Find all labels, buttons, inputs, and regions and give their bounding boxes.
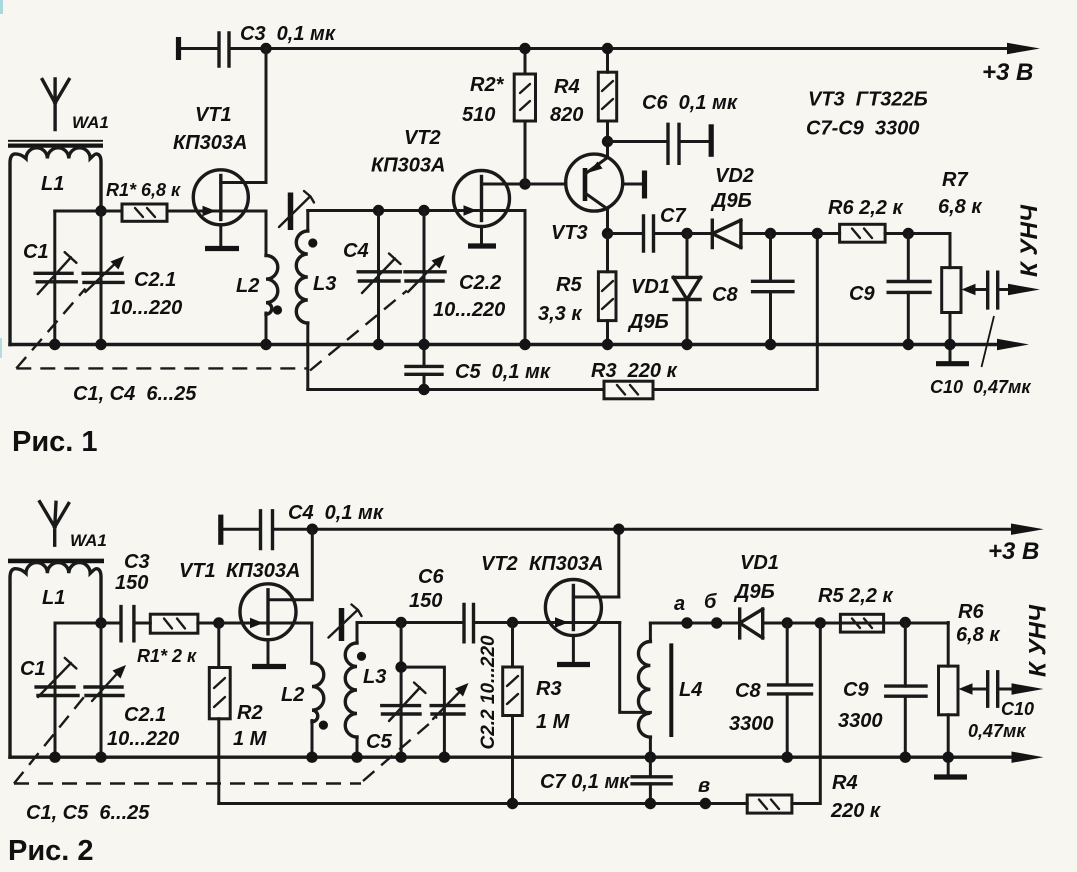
svg-text:820: 820 [550,104,583,126]
resistor R5 (sch2) [840,614,883,632]
svg-text:а: а [674,593,685,615]
svg-text:VT1: VT1 [179,560,216,582]
inductor L1 (sch2) [10,563,101,758]
svg-text:C3: C3 [124,551,150,573]
svg-text:C8: C8 [735,680,761,702]
svg-text:б: б [704,591,717,613]
svg-text:L1: L1 [42,587,65,609]
svg-text:L2: L2 [236,275,259,297]
svg-text:К УНЧ: К УНЧ [1025,604,1052,677]
node C7 right / VD1 [681,228,692,239]
diode VD1 (D9B) [686,234,689,345]
svg-text:510: 510 [462,104,495,126]
capacitor C4 (sch2) [261,511,273,549]
capacitor C1 plates [35,273,76,282]
svg-text:C7: C7 [660,205,686,227]
capacitor C9 [907,234,910,345]
svg-text:C9: C9 [843,679,869,701]
diode VD1 (sch2) [740,609,763,638]
wire: C1 top line [55,210,101,213]
capacitor C8 (sch2) [786,623,789,757]
AGC line (sch2) [219,802,747,805]
node: L1/C3/C2.1 (sch2) [95,617,106,628]
wire VT2 drain up to rail (sch2) [617,529,620,597]
transistor VT3 (GT322B PNP) [566,154,623,211]
transistor VT2 (KP303A FET) [454,171,510,227]
svg-text:Д9Б: Д9Б [627,311,669,333]
svg-text:R6 2,2 к: R6 2,2 к [828,197,903,219]
capacitor C10 (sch2) [988,672,998,706]
svg-text:L1: L1 [41,173,64,195]
capacitor C2.2 plates [405,272,445,281]
node C5 bottom [418,384,429,395]
svg-text:C1: C1 [20,658,46,680]
capacitor C2.1 plates [83,273,123,282]
node R2/VT1 gate (sch2) [213,617,224,628]
wire: C1 top line (sch2) [55,622,101,625]
svg-text:C1: C1 [23,241,49,263]
node R4 top rail [602,43,613,54]
svg-text:C4: C4 [343,240,369,262]
node R3/VT2 gate (sch2) [507,617,518,628]
node C8 top (sch2) [782,617,793,628]
gang dashed line (sch2) [14,692,88,784]
svg-text:R1* 2 к: R1* 2 к [137,646,197,666]
svg-text:КП303А: КП303А [226,560,301,582]
wire: node to R1 [101,210,122,213]
antenna WA1 (sch2) [40,502,69,546]
output arrow K UNCH [998,288,1022,291]
resistor R4 [598,72,616,121]
svg-text:К УНЧ: К УНЧ [1016,204,1043,277]
inductor L3 phase dot [308,238,317,247]
svg-text:КП303А: КП303А [529,553,604,575]
svg-text:КП303А: КП303А [371,155,446,177]
node R4/R5 (sch2) [815,617,826,628]
svg-text:КП303А: КП303А [173,132,248,154]
svg-text:10...220: 10...220 [110,297,182,319]
inductor L3 (sch2) [356,623,359,644]
detector line (sch2) [650,622,948,625]
capacitor C6 [608,140,710,143]
node: L1/R1/C2.1 [95,205,106,216]
svg-text:0,47мк: 0,47мк [968,721,1026,741]
+3V power rail (top, schematic 2) [221,528,1024,531]
node C7 bottom (sch2) [645,798,656,809]
svg-text:VD1: VD1 [631,276,670,298]
wire R6 to corner and R7 [885,234,950,268]
wire R2 node up [524,49,527,185]
svg-text:150: 150 [115,572,148,594]
node C5 bracket (sch2) [395,661,406,672]
wire R4 riser (sch2) [792,623,820,804]
svg-text:в: в [698,775,710,797]
svg-text:VT1: VT1 [195,104,232,126]
svg-text:C7 0,1 мк: C7 0,1 мк [540,771,630,793]
svg-text:R6: R6 [958,601,984,623]
transistor VT2 (sch2) [545,580,601,636]
svg-text:C6 0,1 мк: C6 0,1 мк [642,92,738,114]
svg-text:VT2: VT2 [404,127,441,149]
inductor L4 core bar [669,643,673,737]
node C8 top [765,228,776,239]
capacitor C2.1 wire [100,211,103,345]
node C9 top (sch2) [900,617,911,628]
wire VT2 source to L4 tap (sch2) [620,623,651,713]
svg-text:L3: L3 [363,666,386,688]
capacitor C2.2 gang arrow [408,261,439,293]
resistor R2 [514,74,535,121]
svg-text:+3 В: +3 В [982,59,1033,86]
capacitor C2.1 gang arrow (sch2) [92,672,119,702]
ground symbol below R6 (sch2) [947,757,950,774]
wire VT2 source to ground [524,211,527,345]
capacitor C2.1 wire (sch2) [100,623,103,757]
svg-text:VT3 ГТ322Б: VT3 ГТ322Б [808,89,928,111]
capacitor C9 (sch2) [904,623,907,758]
ground rail arrowhead [997,339,1029,350]
capacitor C1 (trimmer) wire [53,211,56,345]
gang dashed line (C2.1 to C2.2) [16,289,85,369]
svg-text:6,8 к: 6,8 к [956,624,1000,646]
svg-text:R5 2,2 к: R5 2,2 к [818,585,893,607]
inductor L3 phase dot (sch2) [357,652,366,661]
svg-text:L3: L3 [313,273,336,295]
svg-text:220 к: 220 к [830,800,881,822]
+3V rail arrowhead (sch2) [1011,524,1044,535]
svg-text:WA1: WA1 [70,531,107,550]
C10 label leader line [982,316,995,367]
node VT3 collector [602,228,613,239]
inductor L2 [266,256,278,315]
svg-text:C2.2 10...220: C2.2 10...220 [478,635,499,750]
wire node down to VT1 drain (sch2) [268,529,312,600]
svg-text:C5 0,1 мк: C5 0,1 мк [455,361,551,383]
transistor VT2 case bar [468,243,496,248]
svg-text:Д9Б: Д9Б [710,190,752,212]
capacitor C4 (trimmer) wire [377,211,380,345]
antenna coupling bar (sch2) [8,559,104,564]
capacitor C8 [769,234,772,345]
capacitor C5 plates [406,366,442,374]
+3V power rail (top, schematic 1) [179,47,1021,50]
node VT2 drain / R2 [519,178,530,189]
svg-text:1 М: 1 М [536,711,571,733]
svg-text:C5: C5 [366,731,392,753]
wire: VT1 source down to L2 [265,211,268,256]
svg-text:10...220: 10...220 [433,299,505,321]
capacitor C6 (sch2) [464,605,474,642]
transistor VT1 case bar (sch2) [252,664,286,669]
node a (sch2) [681,617,692,628]
capacitor C5 wire [423,345,426,390]
inductor L2 (sch2) [312,663,324,722]
node VT3 emitter / C6 [602,136,613,147]
svg-text:L2: L2 [281,684,304,706]
svg-text:R2: R2 [237,702,263,724]
lower line (L3 bottom / AGC return) [308,234,818,390]
svg-text:VT3: VT3 [551,222,588,244]
capacitor C6 terminal bar [709,124,714,157]
wire R1 to gate node (sch2) [198,622,219,625]
R6 wiper arrow from C10 (sch2) [971,688,986,691]
svg-text:R4: R4 [832,772,858,794]
R7 wiper arrow from C10 [974,288,986,291]
svg-text:Рис. 1: Рис. 1 [12,426,98,458]
capacitor C7 [608,232,688,235]
svg-text:VT2: VT2 [481,553,518,575]
node C9 top [903,228,914,239]
node v (sch2) [700,798,711,809]
capacitor C3 terminal bar [176,37,181,60]
capacitor C2.2 plates (sch2) [431,706,464,714]
capacitor C4 trimmer arrow [362,254,401,294]
node b (sch2) [711,617,722,628]
resistor R1 [122,204,167,221]
resistor R6 pot (sch2) [939,666,959,715]
inductor L4 (sch2) [649,623,652,642]
rail junction dots (sch2) [49,752,60,763]
output arrow K UNCH (sch2) [998,688,1026,691]
transistor VT1 (KP303A FET) [193,170,248,225]
ground rail (schematic 2) [10,756,1022,759]
svg-text:C9: C9 [849,283,875,305]
svg-text:Д9Б: Д9Б [733,581,775,603]
resistor R1 (sch2) [150,614,198,633]
node R2 top rail [519,43,530,54]
svg-text:C10 0,47мк: C10 0,47мк [930,377,1031,397]
wire: tank2 top line (sch2) [357,621,546,624]
node C4 top [373,205,384,216]
resistor R4 (sch2) [747,795,792,813]
rail junction dots [49,339,60,350]
svg-text:C1, C4 6...25: C1, C4 6...25 [73,383,197,405]
transistor VT1 case bar [205,246,239,251]
svg-text:VD1: VD1 [740,552,779,574]
svg-text:R4: R4 [554,76,580,98]
svg-text:10...220: 10...220 [107,728,179,750]
capacitor C5 plates (sch2) [382,706,420,714]
resistor R3 [604,381,653,399]
svg-text:R5: R5 [556,274,582,296]
resistor R2 (sch2) [209,668,230,719]
resistor R5 [598,272,616,321]
node VT2 drain rail (sch2) [613,524,624,535]
svg-text:3,3 к: 3,3 к [538,303,582,325]
wire R4 to rail and emitter node [606,49,609,158]
capacitor C10 [988,272,998,308]
capacitor C1 wire (sch2) [54,623,57,757]
svg-text:R1* 6,8 к: R1* 6,8 к [106,180,181,200]
inductor L2 phase dot (sch2) [319,721,328,730]
node: C3 to VT1 drain [260,43,271,54]
svg-text:C4 0,1 мк: C4 0,1 мк [288,502,384,524]
capacitor C2.1 plates (sch2) [85,687,123,696]
adjustable core symbol (sch2) [339,608,345,641]
svg-text:VD2: VD2 [715,165,754,187]
svg-text:1 М: 1 М [233,728,268,750]
node VD2/R3/R6 [812,228,823,239]
inductor L2 phase dot [273,305,282,314]
capacitor C2.2 wire [423,211,426,345]
svg-text:С7-С9 3300: С7-С9 3300 [806,118,919,140]
node C4 / VT1 drain (sch2) [307,524,318,535]
capacitor C4 plates [358,272,400,281]
wire node to R6 [817,232,839,235]
svg-text:L4: L4 [679,679,702,701]
antenna WA1 [42,79,69,130]
svg-text:+3 В: +3 В [988,538,1039,565]
svg-text:3300: 3300 [838,710,883,732]
svg-text:C10: C10 [1001,699,1034,719]
wire C3 node down to VT1 drain [265,49,268,183]
adjustable core symbol (L2/L3) [288,193,294,231]
resistor R7 (volume pot) [942,268,961,313]
ground rail (schematic 1) [10,343,1008,346]
bracket wire to C2.2 (sch2) [401,667,444,757]
node C2.2 top [418,205,429,216]
resistor R3 (sch2) [503,667,523,716]
inductor L3 [306,211,309,232]
svg-text:C3 0,1 мк: C3 0,1 мк [240,23,336,45]
svg-text:3300: 3300 [729,713,774,735]
resistor R6 [840,224,886,242]
svg-text:150: 150 [409,590,442,612]
svg-text:WA1: WA1 [72,113,109,132]
scan artifact cyan mark top-left [0,0,3,14]
svg-text:R3 220 к: R3 220 к [591,360,678,382]
svg-text:6,8 к: 6,8 к [938,196,982,218]
VT3 shield lead [623,183,643,186]
capacitor C1 trimmer arrow [38,252,77,294]
capacitor C2.2 gang arrow (sch2) [433,690,462,719]
capacitor C1 plates (sch2) [36,687,78,696]
inductor L1 (loop antenna) [10,148,101,345]
capacitor C7 (sch2) [649,757,652,803]
node R3 bottom (sch2) [507,798,518,809]
svg-text:C2.2: C2.2 [459,272,501,294]
svg-text:C2.1: C2.1 [134,269,176,291]
svg-text:C2.1: C2.1 [124,704,166,726]
+3V rail arrowhead [1007,43,1040,54]
ground symbol below R7 [949,345,952,362]
diode VD2 (D9B) [687,232,817,235]
svg-text:C8: C8 [712,284,738,306]
capacitor C1 trimmer arrow (sch2) [38,658,76,697]
node C5 top (sch2) [395,617,406,628]
svg-text:C6: C6 [418,566,444,588]
svg-text:R2*: R2* [470,74,505,96]
ground rail arrowhead (sch2) [1012,752,1044,763]
capacitor C3 [219,33,229,66]
svg-text:R7: R7 [942,169,968,191]
wire VT2 drain to VT3 base [525,183,566,186]
transistor VT2 case bar (sch2) [557,662,590,667]
capacitor C3 (sch2) [101,622,150,625]
wire: tank2 top line to VT2 gate [308,209,454,212]
capacitor C5 trimmer arrow (sch2) [389,683,426,722]
capacitor C5 wire (sch2) [400,623,403,758]
transistor VT1 (sch2) [240,584,296,640]
wire VT1 source down to L2 (sch2) [310,623,313,663]
capacitor C2.1 gang arrow [85,261,117,292]
capacitor C4 terminal bar (sch2) [218,515,223,545]
antenna coupling bar [8,140,103,142]
svg-text:C1, C5 6...25: C1, C5 6...25 [26,802,150,824]
svg-text:Рис. 2: Рис. 2 [8,835,94,867]
svg-text:R3: R3 [536,678,562,700]
